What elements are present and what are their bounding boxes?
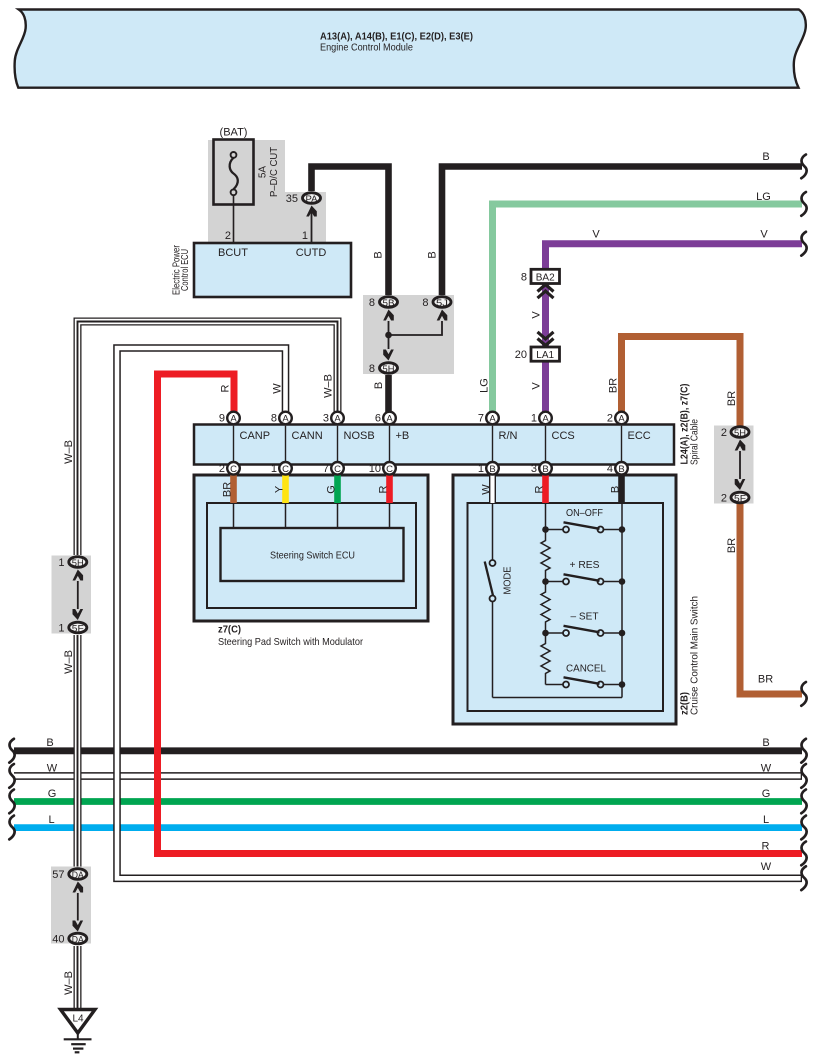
bus wire G bbox=[14, 798, 802, 805]
svg-text:ON–OFF: ON–OFF bbox=[566, 508, 603, 519]
svg-text:2: 2 bbox=[219, 463, 225, 475]
svg-text:5B: 5B bbox=[383, 298, 395, 309]
resistor R3 bbox=[541, 633, 550, 685]
svg-text:LG: LG bbox=[479, 378, 491, 393]
svg-text:A: A bbox=[618, 414, 625, 425]
svg-text:BR: BR bbox=[608, 378, 620, 393]
wire V from CCS pin through LA1 BA2 to right edge bbox=[546, 244, 803, 418]
svg-text:B: B bbox=[542, 464, 548, 475]
wire W-B from 5F to 57 DA bbox=[74, 635, 82, 867]
svg-text:W–B: W–B bbox=[63, 440, 75, 464]
central connector block L24(A) z2(B) z7(C) Spiral Cable bbox=[194, 425, 674, 465]
connector 1 5H left bbox=[69, 557, 87, 568]
wire B rail of switch bbox=[621, 503, 623, 698]
svg-text:1: 1 bbox=[58, 557, 64, 569]
wire junction link 5B/5J/5H bbox=[388, 321, 390, 349]
svg-text:Engine Control Module: Engine Control Module bbox=[320, 42, 413, 54]
svg-text:CCS: CCS bbox=[552, 430, 575, 442]
svg-text:NOSB: NOSB bbox=[344, 430, 375, 442]
svg-text:A13(A), A14(B), E1(C), E2(D),: A13(A), A14(B), E1(C), E2(D), E3(E) bbox=[320, 31, 473, 43]
svg-text:6: 6 bbox=[375, 413, 381, 425]
svg-text:3: 3 bbox=[323, 413, 329, 425]
arrow into 5H left bbox=[73, 570, 84, 581]
svg-text:5F: 5F bbox=[734, 493, 746, 504]
svg-text:B: B bbox=[610, 486, 622, 493]
pin 10 C bbox=[383, 462, 396, 475]
wire W-B from 40 DA to ground L4 bbox=[74, 946, 82, 1009]
bus wire B bbox=[14, 747, 802, 754]
pin 1 B bbox=[486, 462, 499, 475]
wire link DA to DA bbox=[77, 893, 79, 921]
svg-text:L4: L4 bbox=[72, 1014, 84, 1025]
gray box left 5H 5F bbox=[52, 556, 92, 634]
svg-text:B: B bbox=[618, 464, 624, 475]
steering pad switch box z7(C) bbox=[194, 475, 428, 621]
svg-text:57: 57 bbox=[52, 869, 64, 881]
svg-text:2: 2 bbox=[225, 230, 231, 242]
pin 7 A R/N bbox=[486, 412, 499, 425]
svg-text:8: 8 bbox=[271, 413, 277, 425]
svg-text:A: A bbox=[386, 414, 393, 425]
connector 2 5F right bbox=[731, 492, 749, 503]
wire W to MODE switch bbox=[492, 503, 494, 560]
svg-text:V: V bbox=[760, 229, 768, 241]
svg-text:W–B: W–B bbox=[63, 971, 75, 995]
svg-text:B: B bbox=[46, 737, 53, 749]
pin 4 B bbox=[615, 462, 628, 475]
svg-text:A: A bbox=[230, 414, 237, 425]
svg-text:2: 2 bbox=[721, 492, 727, 504]
connector 8 BA2 bbox=[531, 269, 560, 283]
svg-text:5F: 5F bbox=[72, 623, 84, 634]
svg-text:LG: LG bbox=[756, 191, 771, 203]
svg-text:8: 8 bbox=[369, 363, 375, 375]
svg-text:10: 10 bbox=[369, 463, 381, 475]
svg-text:W–B: W–B bbox=[323, 374, 335, 398]
svg-text:BR: BR bbox=[726, 391, 738, 406]
svg-text:+ RES: + RES bbox=[570, 560, 600, 571]
wire W-B from NOSB pin down left side to 5H bbox=[78, 322, 338, 556]
svg-text:V: V bbox=[531, 382, 543, 390]
svg-text:W: W bbox=[761, 763, 772, 775]
wire MODE switch to bottom rail bbox=[492, 602, 494, 698]
Electric Power Control ECU box bbox=[194, 243, 351, 297]
svg-text:BCUT: BCUT bbox=[218, 247, 248, 259]
svg-text:C: C bbox=[386, 464, 393, 475]
svg-text:R: R bbox=[220, 384, 232, 392]
resistor R2 bbox=[541, 582, 550, 634]
svg-text:1: 1 bbox=[302, 230, 308, 242]
fuse 5A P-D/C CUT bbox=[214, 140, 254, 205]
fuse area gray shading bbox=[208, 140, 326, 242]
arrow into 40 DA bbox=[73, 921, 84, 932]
svg-text:W: W bbox=[761, 861, 772, 873]
arrow into 5F left bbox=[73, 609, 84, 620]
svg-text:B: B bbox=[427, 251, 439, 258]
wire stub BR to z7 bbox=[230, 468, 237, 503]
svg-text:BA2: BA2 bbox=[536, 272, 555, 283]
gray box right 5H 5F bbox=[714, 426, 754, 504]
arrow into 57 DA bbox=[73, 882, 84, 893]
svg-text:40: 40 bbox=[52, 933, 64, 945]
svg-text:1: 1 bbox=[478, 463, 484, 475]
svg-text:CANP: CANP bbox=[240, 430, 271, 442]
svg-text:4: 4 bbox=[607, 463, 613, 475]
bus wire L bbox=[14, 824, 802, 831]
junction dot bbox=[385, 332, 392, 339]
svg-text:5A: 5A bbox=[258, 166, 269, 179]
switch MODE bbox=[485, 560, 496, 602]
svg-text:R: R bbox=[762, 841, 770, 853]
svg-text:P–D/C CUT: P–D/C CUT bbox=[269, 147, 280, 197]
pin 1 C bbox=[279, 462, 292, 475]
wire-continue brace B bbox=[801, 155, 806, 179]
svg-text:C: C bbox=[334, 464, 341, 475]
wire B from 5J to right edge bbox=[442, 167, 802, 296]
svg-text:B: B bbox=[373, 251, 385, 258]
svg-text:G: G bbox=[326, 485, 338, 494]
wire fuse to BCUT pin 2 bbox=[233, 195, 235, 243]
connector 20 LA1 bbox=[531, 347, 560, 361]
wire link 5H to 5F right bbox=[739, 451, 741, 479]
pin 2 A ECC bbox=[615, 412, 628, 425]
connector 40 DA bbox=[69, 933, 87, 944]
svg-text:8: 8 bbox=[422, 297, 428, 309]
svg-text:DA: DA bbox=[72, 934, 85, 945]
wire link 5H to 5F left bbox=[77, 581, 79, 609]
connector 57 DA bbox=[69, 869, 87, 880]
connector 8 5H bbox=[380, 363, 398, 374]
svg-text:Cruise Control Main Switch: Cruise Control Main Switch bbox=[690, 596, 701, 715]
svg-text:PA: PA bbox=[306, 194, 319, 205]
arrow into PA bbox=[306, 206, 317, 217]
double chevron up below BA2 bbox=[538, 285, 554, 299]
switch ON-OFF bbox=[542, 522, 625, 533]
switch - SET bbox=[542, 626, 625, 637]
wire stub R to z7 bbox=[386, 468, 393, 503]
connector 8 5B bbox=[380, 297, 398, 308]
wire BR from ECC pin to right 5H, 5F to right edge bbox=[622, 337, 741, 427]
svg-text:5H: 5H bbox=[734, 428, 746, 439]
svg-text:Steering Switch ECU: Steering Switch ECU bbox=[270, 550, 355, 562]
svg-text:B: B bbox=[762, 737, 769, 749]
svg-text:CANN: CANN bbox=[292, 430, 323, 442]
arrow into 5J bbox=[437, 310, 448, 321]
pin 6 A +B bbox=[383, 412, 396, 425]
svg-text:1: 1 bbox=[531, 413, 537, 425]
svg-text:20: 20 bbox=[515, 349, 527, 361]
connector 2 5H right bbox=[731, 427, 749, 438]
svg-text:L: L bbox=[763, 814, 769, 826]
svg-text:W: W bbox=[272, 383, 284, 394]
svg-text:BR: BR bbox=[726, 538, 738, 553]
pin 8 A CANN bbox=[279, 412, 292, 425]
svg-text:V: V bbox=[531, 311, 543, 319]
svg-text:B: B bbox=[489, 464, 495, 475]
svg-text:G: G bbox=[762, 788, 771, 800]
pin 3 B bbox=[539, 462, 552, 475]
svg-text:W: W bbox=[47, 763, 58, 775]
svg-text:2: 2 bbox=[721, 427, 727, 439]
svg-text:LA1: LA1 bbox=[536, 350, 554, 361]
wire CUTD pin 1 to PA bbox=[311, 212, 313, 243]
svg-text:35: 35 bbox=[286, 193, 298, 205]
wire LG from R/N pin to right edge bbox=[493, 204, 803, 418]
connector 8 5J bbox=[433, 297, 451, 308]
svg-text:BR: BR bbox=[758, 674, 773, 686]
wire R to ON-OFF node bbox=[545, 503, 547, 530]
svg-text:DA: DA bbox=[72, 870, 85, 881]
svg-text:– SET: – SET bbox=[571, 612, 599, 623]
wire stub G to z7 bbox=[334, 468, 341, 503]
wire stub B to z2 bbox=[618, 468, 625, 503]
svg-text:ECC: ECC bbox=[628, 430, 651, 442]
svg-text:B: B bbox=[373, 382, 385, 389]
wire bottom rail bbox=[493, 697, 623, 699]
svg-text:+B: +B bbox=[396, 430, 410, 442]
svg-text:R: R bbox=[378, 485, 390, 493]
connector 35 PA bbox=[303, 193, 321, 204]
pin 9 A CANP bbox=[227, 412, 240, 425]
double chevron down above LA1 bbox=[538, 332, 554, 346]
arrow into 5H bbox=[383, 350, 394, 361]
cruise control main switch box z2(B) bbox=[453, 475, 676, 724]
svg-text:8: 8 bbox=[521, 271, 527, 283]
svg-text:W–B: W–B bbox=[63, 650, 75, 674]
wire B from 5H to +B pin bbox=[385, 375, 392, 418]
svg-text:MODE: MODE bbox=[503, 566, 514, 594]
svg-text:C: C bbox=[282, 464, 289, 475]
arrow into 5B bbox=[383, 310, 394, 321]
wire stub Y to z7 bbox=[282, 468, 289, 503]
svg-text:Y: Y bbox=[274, 485, 286, 493]
svg-text:1: 1 bbox=[271, 463, 277, 475]
pin 1 A CCS bbox=[539, 412, 552, 425]
svg-text:Spiral Cable: Spiral Cable bbox=[690, 419, 701, 465]
svg-text:A: A bbox=[334, 414, 341, 425]
svg-text:W: W bbox=[481, 484, 493, 495]
switch + RES bbox=[542, 574, 625, 585]
pin 2 C bbox=[227, 462, 240, 475]
svg-text:(BAT): (BAT) bbox=[220, 127, 248, 139]
svg-text:V: V bbox=[592, 229, 600, 241]
pin 3 A NOSB bbox=[331, 412, 344, 425]
svg-text:A: A bbox=[489, 414, 496, 425]
bus wire W bbox=[14, 772, 802, 780]
wire stub R to z2 bbox=[542, 468, 549, 503]
svg-text:A: A bbox=[282, 414, 289, 425]
svg-text:7: 7 bbox=[323, 463, 329, 475]
svg-text:8: 8 bbox=[369, 297, 375, 309]
connector 1 5F left bbox=[69, 622, 87, 633]
svg-text:7: 7 bbox=[478, 413, 484, 425]
svg-text:5J: 5J bbox=[436, 298, 448, 309]
wire W from CANN pin around left side to bus W bbox=[117, 348, 802, 878]
svg-text:R/N: R/N bbox=[499, 430, 518, 442]
arrow into 5F right bbox=[735, 479, 746, 490]
svg-text:Steering Pad Switch with Modul: Steering Pad Switch with Modulator bbox=[218, 636, 363, 648]
switch CANCEL bbox=[546, 677, 626, 688]
svg-text:CANCEL: CANCEL bbox=[566, 664, 606, 675]
svg-text:2: 2 bbox=[607, 413, 613, 425]
resistor R1 bbox=[541, 530, 550, 582]
svg-text:Control ECU: Control ECU bbox=[180, 249, 191, 291]
gray box 5B 5J 5H bbox=[363, 295, 454, 374]
svg-text:5H: 5H bbox=[72, 558, 84, 569]
svg-text:BR: BR bbox=[222, 482, 234, 497]
svg-text:L: L bbox=[48, 814, 54, 826]
svg-text:R: R bbox=[534, 485, 546, 493]
svg-text:G: G bbox=[48, 788, 57, 800]
svg-text:z7(C): z7(C) bbox=[218, 624, 241, 636]
wire stub W to z2 bbox=[489, 468, 496, 503]
ground L4 bbox=[61, 1010, 96, 1034]
svg-text:A: A bbox=[542, 414, 549, 425]
gray box DA bbox=[51, 867, 91, 944]
wire B from PA to 5B bbox=[312, 167, 389, 296]
svg-text:B: B bbox=[762, 151, 769, 163]
arrow into 5H right bbox=[735, 440, 746, 451]
pin 7 C bbox=[331, 462, 344, 475]
svg-text:3: 3 bbox=[531, 463, 537, 475]
wire R from CANP pin around left side to bus R bbox=[158, 374, 803, 854]
svg-text:CUTD: CUTD bbox=[296, 247, 327, 259]
svg-text:C: C bbox=[230, 464, 237, 475]
svg-text:1: 1 bbox=[58, 622, 64, 634]
ECM banner bbox=[15, 10, 806, 88]
svg-text:5H: 5H bbox=[383, 364, 395, 375]
svg-text:9: 9 bbox=[219, 413, 225, 425]
